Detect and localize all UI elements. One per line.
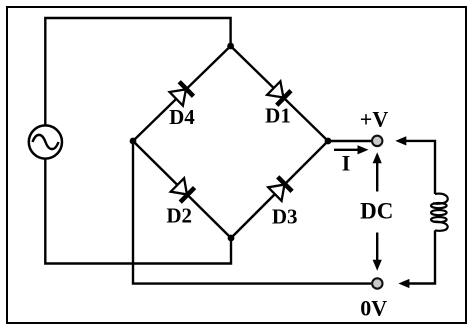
node: bridge bottom junction — [228, 235, 235, 242]
wire: left vertex down to 0V rail — [133, 141, 371, 284]
DC measure arrow up — [373, 152, 382, 191]
wire: AC bottom vertical + bottom horizontal + rise to bridge bottom — [45, 159, 231, 264]
current arrow I — [334, 145, 369, 154]
wire: right return loop top with arrow into +V — [395, 136, 435, 194]
svg-text:D4: D4 — [169, 105, 195, 129]
diode D2 — [170, 178, 196, 204]
wire: bridge arm top-left (D4 arm) — [133, 46, 231, 141]
inductor load coil — [431, 194, 448, 231]
terminal +V — [372, 136, 382, 146]
wire: bridge arm bottom-right (D3 arm) — [231, 141, 328, 238]
node: bridge left junction — [130, 138, 137, 145]
terminal 0V — [372, 278, 382, 288]
svg-text:0V: 0V — [360, 296, 387, 321]
node: bridge right junction — [325, 138, 332, 145]
svg-text:I: I — [342, 151, 351, 176]
diode D1 — [267, 81, 293, 107]
DC measure arrow down — [373, 233, 382, 271]
wire: bridge arm bottom-left (D2 arm) — [133, 141, 231, 238]
wire: right vertex to +V terminal — [328, 140, 371, 142]
svg-text:+V: +V — [360, 107, 389, 132]
svg-text:D2: D2 — [166, 204, 192, 228]
ac source — [29, 125, 62, 158]
svg-text:DC: DC — [360, 198, 393, 223]
diode D4 — [169, 80, 195, 106]
wire: bridge arm top-right (D1 arm) — [231, 46, 328, 141]
diode D3 — [268, 175, 294, 201]
wire: right return loop bottom with arrow into 0V — [398, 230, 435, 288]
svg-text:D1: D1 — [265, 104, 291, 128]
wire: AC top vertical + top horizontal + drop to bridge top — [45, 18, 230, 125]
node: bridge top junction — [227, 43, 234, 50]
svg-text:D3: D3 — [272, 205, 298, 229]
